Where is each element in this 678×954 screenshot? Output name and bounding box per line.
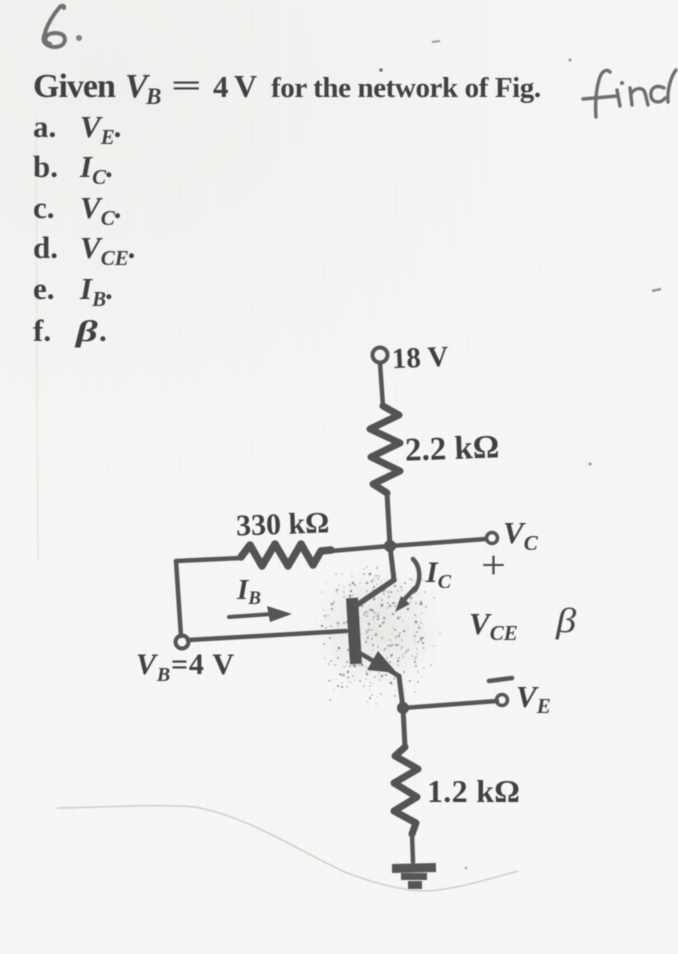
svg-text:IB.: IB. xyxy=(79,271,114,311)
svg-text:=: = xyxy=(171,69,202,102)
svg-text:VCE.: VCE. xyxy=(80,230,136,270)
svg-text:4: 4 xyxy=(213,69,229,104)
svg-text:V: V xyxy=(234,68,257,104)
svg-text:β: β xyxy=(74,314,98,347)
svg-text:+: + xyxy=(481,544,506,587)
svg-text:330 kΩ: 330 kΩ xyxy=(235,506,329,542)
svg-text:f.: f. xyxy=(33,313,51,348)
svg-text:2.2 kΩ: 2.2 kΩ xyxy=(404,429,499,468)
svg-text:IB: IB xyxy=(236,574,261,609)
svg-text:c.: c. xyxy=(33,190,55,225)
svg-text:.: . xyxy=(99,313,107,348)
svg-text:VC: VC xyxy=(503,515,539,555)
svg-text:VC.: VC. xyxy=(80,190,122,230)
svg-text:β: β xyxy=(555,602,577,641)
svg-text:VE.: VE. xyxy=(80,109,122,149)
svg-text:Given: Given xyxy=(33,68,116,105)
svg-text:VB=4 V: VB=4 V xyxy=(136,648,235,686)
svg-text:e.: e. xyxy=(33,271,55,306)
svg-text:VCE: VCE xyxy=(469,606,518,645)
svg-text:VE: VE xyxy=(516,679,551,718)
svg-text:1.2 kΩ: 1.2 kΩ xyxy=(427,773,520,809)
svg-text:IC: IC xyxy=(425,556,452,593)
svg-text:a.: a. xyxy=(33,109,56,144)
svg-text:d.: d. xyxy=(33,230,58,265)
svg-text:18 V: 18 V xyxy=(391,341,449,375)
svg-text:for the network of Fig.: for the network of Fig. xyxy=(271,72,541,104)
svg-text:B: B xyxy=(145,84,161,109)
svg-text:IC.: IC. xyxy=(79,149,114,189)
svg-text:b.: b. xyxy=(33,149,58,184)
